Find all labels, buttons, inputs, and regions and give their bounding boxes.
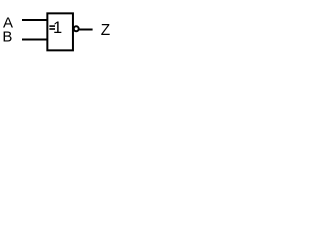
svg-text:Z: Z [101,22,110,39]
svg-text:1: 1 [53,19,62,37]
svg-text:B: B [2,28,12,45]
